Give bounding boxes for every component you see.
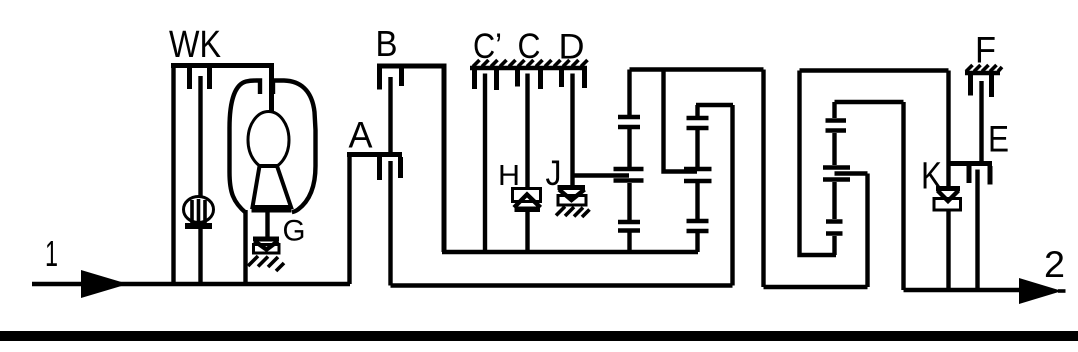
clutch A plate 1 [377, 157, 382, 180]
WK plate 1 [187, 68, 192, 89]
mid-left planet stack shaft [627, 70, 631, 253]
oil pump inner vanes [192, 199, 205, 223]
brake D plate 2 [582, 70, 587, 88]
svg-text:1: 1 [45, 233, 58, 274]
wire T2: top line over right planetary [800, 68, 949, 72]
svg-text:D: D [559, 28, 585, 67]
freewheel J top bar [558, 185, 586, 190]
clutch A left shaft (to input line) [347, 155, 351, 285]
mid-left stack gear pair middle (wide) [614, 169, 644, 181]
freewheel G ground hatch [248, 256, 284, 271]
output arrowhead [1019, 278, 1062, 304]
right stack gear pair top [826, 121, 847, 131]
brake D shaft (to freewheel J) [570, 74, 574, 187]
oil pump circle [184, 197, 214, 223]
wire H1: B drum to planet carriers [442, 250, 698, 254]
clutch E plate 2 [988, 166, 993, 185]
brake housing hatching [473, 60, 588, 67]
mid-right planet stack shaft [695, 105, 699, 252]
svg-text:2: 2 [1044, 244, 1065, 285]
wire: T-top down to wire S2 end [730, 105, 734, 286]
wire: input line from 1 to clutch A shaft [32, 282, 350, 286]
wire T1: top line over mid planetary [630, 67, 764, 71]
clutch E plate 1 [967, 166, 972, 183]
clutch A output shaft down to wire S2 [388, 161, 392, 286]
brake F shaft down to clutch E bar [979, 81, 983, 162]
clutch E bar [947, 161, 993, 166]
brake C shaft upper (to freewheel H) [525, 74, 529, 190]
freewheel J box [558, 196, 586, 206]
right planetary inner line [835, 100, 904, 104]
brake C' plate 1 [472, 70, 477, 89]
brake F housing bar [965, 71, 1000, 75]
mid-right stack gear pair middle (wide) [684, 169, 712, 181]
wire: T1 right end down to wire S3 [761, 70, 765, 288]
clutch A bar [347, 152, 402, 157]
output line stub past arrow [1058, 289, 1066, 293]
right stack gear pair bottom [826, 222, 843, 234]
wire S3 [764, 285, 868, 289]
mid-right stack T-top [696, 103, 733, 107]
clutch B plate 2 [399, 68, 404, 86]
clutch B output shaft down to clutch A bar [388, 77, 392, 152]
stator cone [253, 166, 292, 207]
clutch B plate 1 [377, 68, 382, 90]
wire: right stack middle to wire S3 right end [835, 174, 868, 288]
freewheel K box [934, 199, 961, 211]
right stack gear pair middle (wide) [823, 168, 850, 180]
freewheel G box [254, 245, 280, 254]
oil pump bottom bar [185, 223, 212, 229]
brake C' plate 2 [494, 70, 499, 90]
brake D plate 1 [559, 70, 564, 87]
brake F plate 1 [968, 75, 973, 96]
freewheel G top bar [253, 237, 279, 242]
svg-text:G: G [283, 215, 306, 248]
WK output / turbine shaft (through pump to input line) [198, 76, 202, 197]
clutch A plate 2 [398, 157, 403, 178]
brake housing bar C' C D [470, 66, 587, 70]
mid-right stack gear pair top [687, 118, 709, 128]
torque converter shell left half [230, 81, 261, 214]
svg-text:A: A [349, 115, 373, 156]
input arrowhead [81, 270, 128, 298]
shaft cone to freewheel G [265, 212, 269, 238]
wire S2: clutch A output to mid planetary [391, 283, 733, 287]
WK plate 2 [207, 68, 212, 89]
cone bottom bar [252, 207, 292, 213]
freewheel H wedge [514, 195, 541, 208]
clutch B bar + drum down to wire H1 [377, 66, 444, 252]
wire: shell bottom to input line [243, 210, 247, 284]
brake F hatching [966, 65, 1002, 72]
WK left shaft (to input line) [171, 66, 175, 285]
mid-left stack gear pair bottom [618, 222, 640, 231]
mid-left stack gear pair top [618, 117, 640, 127]
brake C plate 2 [538, 70, 543, 89]
K shaft lower (freewheel K to output line) [946, 210, 950, 290]
svg-text:C: C [518, 27, 541, 66]
freewheel H box [513, 189, 541, 202]
freewheel G wedge [255, 241, 279, 250]
svg-text:E: E [988, 119, 1009, 160]
K shaft upper (from T2 to freewheel K) [946, 71, 950, 188]
wire: T2 left drop to right planetary bottom connector [800, 71, 837, 256]
clutch E output shaft to output line [975, 170, 979, 291]
svg-text:WK: WK [169, 24, 221, 66]
clutch WK bar + wire to converter shell [171, 66, 272, 113]
svg-text:F: F [975, 30, 996, 71]
torque converter shell right half [273, 81, 316, 213]
wire: T1 drop to mid-right stack middle [664, 70, 698, 172]
right planet stack shaft [832, 102, 836, 255]
svg-text:B: B [376, 23, 398, 64]
freewheel J ground hatch [556, 207, 590, 218]
freewheel K top bar [936, 186, 960, 191]
thick baseline bar [0, 331, 1078, 341]
turbine oval [248, 112, 289, 169]
freewheel K wedge [938, 191, 959, 202]
wire: J shaft to left planet stack [573, 173, 630, 177]
brake C plate 1 [515, 70, 520, 87]
wire S4 (output line) [904, 288, 1025, 292]
mid-right stack gear pair bottom [687, 221, 709, 231]
wire: inner line down to output wire S4 [901, 102, 905, 290]
freewheel H bottom bar [515, 207, 541, 213]
svg-text:C’: C’ [473, 27, 502, 66]
brake C' shaft down to wire H1 [483, 74, 487, 253]
brake C shaft lower (freewheel H to wire H1) [525, 211, 529, 252]
brake F plate 2 [989, 75, 994, 97]
freewheel J wedge [559, 190, 585, 201]
